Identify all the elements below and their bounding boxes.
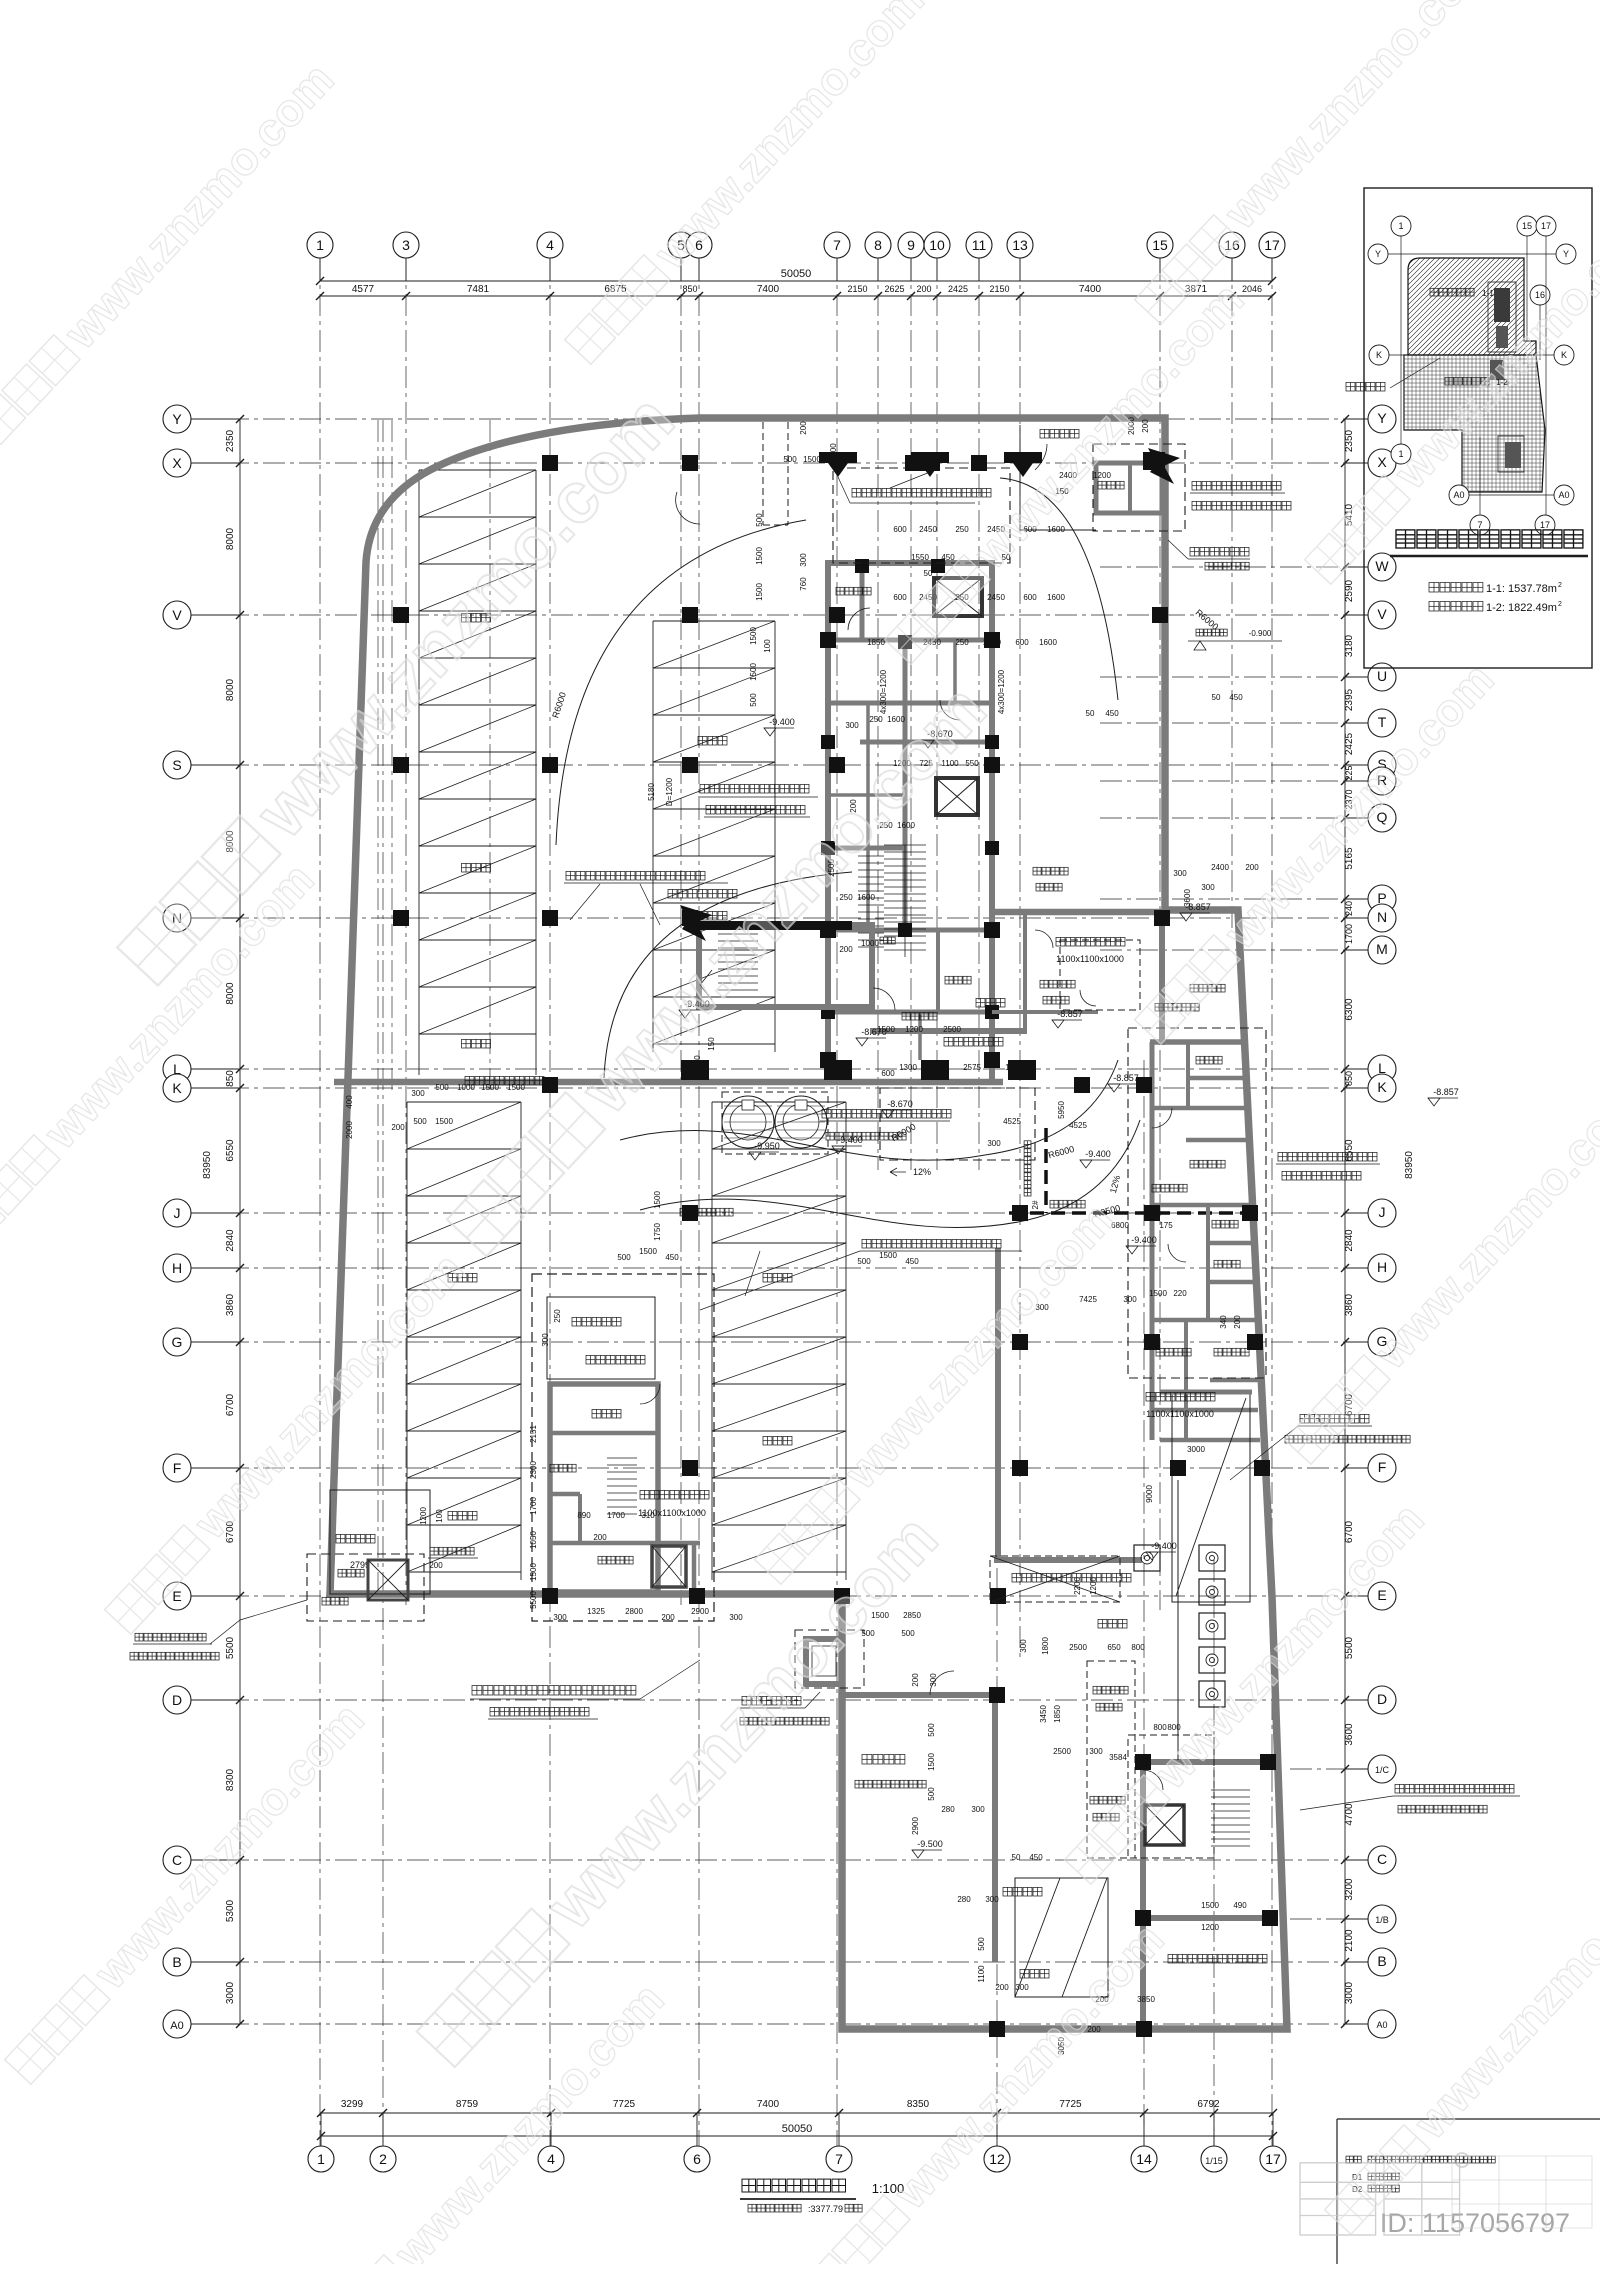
svg-text:3000: 3000 <box>1187 1445 1205 1454</box>
svg-text:5500: 5500 <box>1344 1636 1355 1659</box>
label: A unit exit 2# <box>700 784 709 793</box>
svg-text:2: 2 <box>1558 601 1562 608</box>
svg-text:2840: 2840 <box>1344 1229 1355 1252</box>
interior wall at row L (1# unit closure) <box>334 1079 1003 1086</box>
svg-text:F: F <box>173 1460 182 1476</box>
svg-text:500: 500 <box>927 1723 936 1737</box>
svg-text:450: 450 <box>1105 709 1119 718</box>
svg-text:1700: 1700 <box>529 1497 538 1515</box>
svg-text:1500: 1500 <box>755 547 764 565</box>
svg-text:J: J <box>174 1205 181 1221</box>
left dashed vent box <box>307 1554 424 1621</box>
svg-text:A0: A0 <box>170 2020 183 2032</box>
blast wall T marks at row X <box>819 452 857 463</box>
svg-text:1000: 1000 <box>457 1083 475 1092</box>
svg-text:1750: 1750 <box>653 1223 662 1241</box>
svg-text:E: E <box>1377 1587 1386 1603</box>
svg-text:8759: 8759 <box>456 2099 479 2110</box>
svg-text:300: 300 <box>1123 1295 1137 1304</box>
svg-text:ID: 1157056797: ID: 1157056797 <box>1380 2208 1570 2238</box>
svg-text:1800: 1800 <box>1041 1637 1050 1655</box>
svg-text:15: 15 <box>1152 237 1168 253</box>
svg-text:6300: 6300 <box>1344 998 1355 1021</box>
bottom dimension chain <box>321 2112 1273 2114</box>
svg-text:500: 500 <box>435 1083 449 1092</box>
svg-text:450: 450 <box>1029 1853 1043 1862</box>
grid horizontal axis lines <box>191 418 1368 420</box>
svg-text:8: 8 <box>874 237 882 253</box>
svg-text:1000: 1000 <box>861 939 879 948</box>
svg-text:6792: 6792 <box>1197 2099 1220 2110</box>
label: 150 sill <box>1205 562 1213 570</box>
svg-text:Y: Y <box>1375 249 1381 259</box>
svg-text:500: 500 <box>749 693 758 707</box>
svg-text:450: 450 <box>905 1257 919 1266</box>
svg-text:500: 500 <box>977 1937 986 1951</box>
svg-text:300: 300 <box>1089 1747 1103 1756</box>
svg-text:D=1200: D=1200 <box>665 777 674 806</box>
svg-text:4x300=1200: 4x300=1200 <box>879 669 888 714</box>
svg-text:13: 13 <box>1012 237 1028 253</box>
ramp headroom note <box>990 1556 1120 1602</box>
svg-text:1500: 1500 <box>481 1083 499 1092</box>
heavy dashed closure lines <box>1009 1211 1247 1215</box>
svg-text::3377.79: :3377.79 <box>808 2204 843 2214</box>
svg-text:100: 100 <box>435 1509 444 1523</box>
sump pit label mid-left <box>640 1490 649 1499</box>
door swing arcs <box>848 608 870 630</box>
elevator shaft 2 <box>936 778 978 815</box>
misc labels <box>836 587 871 595</box>
svg-text:6700: 6700 <box>225 1393 236 1416</box>
svg-text:1300: 1300 <box>899 1063 917 1072</box>
svg-text:2850: 2850 <box>903 1611 921 1620</box>
core bottom wall <box>870 1028 1027 1034</box>
parking stall bottom single <box>1015 1878 1108 1997</box>
svg-text:7400: 7400 <box>757 2099 780 2110</box>
svg-text:4x300=1200: 4x300=1200 <box>997 669 1006 714</box>
svg-text:5950: 5950 <box>1057 1101 1066 1119</box>
svg-text:1200: 1200 <box>905 1025 923 1034</box>
svg-text:890: 890 <box>577 1511 591 1520</box>
svg-text:Y: Y <box>1563 249 1569 259</box>
svg-text:300: 300 <box>553 1613 567 1622</box>
svg-text:15: 15 <box>1522 221 1532 231</box>
inset axis circles <box>1391 216 1411 236</box>
svg-text:1500: 1500 <box>879 1251 897 1260</box>
svg-text:7481: 7481 <box>467 284 490 295</box>
svg-text:2500: 2500 <box>943 1025 961 1034</box>
top-right air supply room <box>1096 463 1162 513</box>
svg-text:300: 300 <box>929 1673 938 1687</box>
toilet rooms right of core <box>1060 940 1140 1010</box>
inset area lines <box>1429 583 1439 593</box>
bottom mid walls <box>1140 1759 1268 1765</box>
interior wall row N right part <box>992 909 1165 916</box>
svg-text:1500: 1500 <box>749 627 758 645</box>
drawing title <box>742 2179 756 2192</box>
svg-text:1: 1 <box>316 237 324 253</box>
svg-text:1100x1100x1000: 1100x1100x1000 <box>1056 954 1124 964</box>
svg-text:1200: 1200 <box>419 1507 428 1525</box>
svg-text:240: 240 <box>1344 901 1354 916</box>
svg-text:1700: 1700 <box>607 1511 625 1520</box>
svg-text:150: 150 <box>707 1037 716 1051</box>
svg-text:2590: 2590 <box>1344 579 1355 602</box>
central core block <box>828 563 992 1082</box>
znzmo logo <box>1300 2153 1469 2235</box>
svg-text:X: X <box>172 455 182 471</box>
svg-text:1200: 1200 <box>1201 1923 1219 1932</box>
svg-text:1100x1100x1000: 1100x1100x1000 <box>1146 1409 1214 1419</box>
svg-text:300: 300 <box>845 721 859 730</box>
fire-zone inset frame <box>1364 188 1592 668</box>
svg-text:A0: A0 <box>1376 2020 1387 2030</box>
B unit normal vent left label <box>135 1633 143 1641</box>
svg-text:175: 175 <box>1159 1221 1173 1230</box>
svg-text:1500: 1500 <box>435 1117 453 1126</box>
svg-text:4525: 4525 <box>1003 1117 1021 1126</box>
svg-text:200: 200 <box>429 1561 443 1570</box>
svg-text:W: W <box>1375 558 1389 574</box>
fire shutter label <box>1346 382 1355 391</box>
label: blast wall k-row <box>862 1239 871 1248</box>
outdoor level <box>1196 629 1203 636</box>
right strip room partitions <box>1150 1039 1248 1045</box>
inset zone labels <box>1430 288 1438 296</box>
svg-text:2840: 2840 <box>225 1229 236 1252</box>
svg-text:50050: 50050 <box>781 268 812 280</box>
svg-text:17: 17 <box>1264 237 1280 253</box>
svg-text:200: 200 <box>995 1983 1009 1992</box>
svg-text:D: D <box>172 1692 182 1708</box>
vent machine room left <box>330 1490 430 1594</box>
svg-text:2046: 2046 <box>1242 284 1262 294</box>
svg-text:300: 300 <box>971 1805 985 1814</box>
svg-text:1500: 1500 <box>639 1247 657 1256</box>
svg-text:3860: 3860 <box>225 1293 236 1316</box>
axis circles left <box>163 405 191 433</box>
svg-text:3: 3 <box>402 237 410 253</box>
svg-text:8000: 8000 <box>225 527 236 550</box>
svg-text:H: H <box>172 1260 182 1276</box>
right strip dashed battle box <box>1128 1028 1266 1378</box>
svg-text:340: 340 <box>1219 1315 1228 1329</box>
elevator shaft 1 <box>934 578 982 616</box>
svg-text:3600: 3600 <box>1183 889 1192 907</box>
svg-text:14: 14 <box>1136 2151 1152 2167</box>
svg-text:T: T <box>1378 714 1387 730</box>
svg-text:1100: 1100 <box>977 1965 986 1983</box>
passage label bottom <box>1003 1887 1012 1896</box>
svg-text:1-1: 1-1 <box>1482 289 1494 298</box>
svg-text:250: 250 <box>553 1309 562 1323</box>
svg-text:7: 7 <box>835 2151 843 2167</box>
svg-text:K: K <box>1376 350 1382 360</box>
svg-text:3180: 3180 <box>1344 634 1355 657</box>
svg-text:2000: 2000 <box>345 1121 354 1139</box>
svg-text:A0: A0 <box>1453 490 1464 500</box>
big dashed B-unit box <box>532 1274 714 1621</box>
svg-text:3860: 3860 <box>1344 1293 1355 1316</box>
water tank room <box>1172 1392 1250 1602</box>
axis circles right <box>1368 405 1396 433</box>
B unit exit 1 label <box>472 1686 482 1696</box>
svg-text:-9.500: -9.500 <box>917 1839 943 1849</box>
svg-text:500: 500 <box>617 1253 631 1262</box>
svg-text:2150: 2150 <box>847 284 867 294</box>
pump room <box>1177 1480 1179 1760</box>
svg-text:2450: 2450 <box>987 593 1005 602</box>
elevation markers <box>764 728 776 736</box>
inset mini plan hatched zone 1-1 <box>1408 258 1536 355</box>
label: normal vent shaft tr <box>1190 547 1199 556</box>
svg-text:1600: 1600 <box>857 893 875 902</box>
svg-text:250: 250 <box>869 715 883 724</box>
svg-text:J: J <box>1379 1204 1386 1220</box>
right strip labels <box>1196 1056 1204 1064</box>
svg-text:300: 300 <box>1201 883 1215 892</box>
wall from fan area down to ramp <box>995 1248 1001 1560</box>
svg-text:4: 4 <box>546 237 554 253</box>
big T columns above K wall <box>681 1060 709 1080</box>
svg-text:50: 50 <box>1212 693 1221 702</box>
svg-text:50: 50 <box>1086 709 1095 718</box>
svg-text:500: 500 <box>857 1257 871 1266</box>
inset title <box>1396 530 1415 548</box>
svg-text:500: 500 <box>783 455 797 464</box>
svg-text:800: 800 <box>1131 1643 1145 1652</box>
svg-text:300: 300 <box>1019 1639 1028 1653</box>
sump pit label right strip <box>1146 1392 1155 1401</box>
svg-text:4700: 4700 <box>1344 1803 1355 1826</box>
svg-text:1: 1 <box>317 2151 325 2167</box>
B unit room labels <box>547 1297 655 1379</box>
svg-text:10: 10 <box>929 237 945 253</box>
svg-text:2350: 2350 <box>225 429 236 452</box>
axis circles bottom <box>308 2146 334 2172</box>
svg-text:1700: 1700 <box>1344 924 1354 944</box>
svg-text:1200: 1200 <box>1089 1577 1098 1595</box>
svg-text:4: 4 <box>547 2151 555 2167</box>
svg-text:7: 7 <box>833 237 841 253</box>
label: A unit vent shaft <box>1192 481 1201 490</box>
svg-text:2500: 2500 <box>1069 1643 1087 1652</box>
svg-text:-9.400: -9.400 <box>1085 1149 1111 1159</box>
svg-text:250: 250 <box>839 893 853 902</box>
svg-text:8000: 8000 <box>225 678 236 701</box>
right-top interior thin walls <box>1019 425 1021 530</box>
svg-text:B: B <box>1377 1953 1386 1969</box>
svg-text:200: 200 <box>661 1613 675 1622</box>
svg-text:-9.400: -9.400 <box>1151 1541 1177 1551</box>
transformer room walls <box>841 1692 1000 1698</box>
core stairs <box>884 844 926 846</box>
svg-text:300: 300 <box>987 1139 1001 1148</box>
svg-text:1-1: 1537.78m: 1-1: 1537.78m <box>1486 583 1557 595</box>
svg-text:5500: 5500 <box>529 1591 538 1609</box>
svg-text:1500: 1500 <box>749 663 758 681</box>
extra core columns <box>855 559 869 573</box>
twin circular shafts <box>722 1096 774 1148</box>
svg-text:200: 200 <box>839 945 853 954</box>
right strip: vertical wall under N <box>1159 912 1165 1045</box>
svg-text:1500: 1500 <box>1149 1289 1167 1298</box>
svg-text:600: 600 <box>881 1069 895 1078</box>
svg-text:1: 1 <box>1398 221 1403 231</box>
axis circles top <box>307 232 333 258</box>
svg-text:5300: 5300 <box>225 1899 236 1922</box>
svg-text:6: 6 <box>693 2151 701 2167</box>
svg-text:4577: 4577 <box>352 284 375 295</box>
svg-text:200: 200 <box>799 421 808 435</box>
svg-text:83950: 83950 <box>202 1151 213 1179</box>
svg-text:17: 17 <box>1265 2151 1281 2167</box>
svg-text:280: 280 <box>957 1895 971 1904</box>
svg-text:G: G <box>172 1334 183 1350</box>
walls right of core rows N-L <box>1023 912 1027 1030</box>
parking strip 407,1102 <box>406 1102 408 1580</box>
svg-text:1500: 1500 <box>877 1025 895 1034</box>
svg-text:300: 300 <box>985 1895 999 1904</box>
svg-text:1550: 1550 <box>911 553 929 562</box>
svg-text:300: 300 <box>411 1089 425 1098</box>
svg-text:2500: 2500 <box>1053 1747 1071 1756</box>
dashed box around fans <box>722 1092 828 1154</box>
svg-text:850: 850 <box>225 1070 236 1087</box>
svg-text:2200: 2200 <box>1073 1577 1082 1595</box>
svg-text:2300: 2300 <box>529 1461 538 1479</box>
svg-text:450: 450 <box>941 553 955 562</box>
outer basement wall <box>330 418 1287 2029</box>
dashed box A-unit exit at core bottom <box>880 1088 1035 1160</box>
svg-text:200: 200 <box>391 1123 405 1132</box>
svg-text:V: V <box>172 607 182 623</box>
top dimension chain <box>320 280 1272 282</box>
grid vertical axis lines <box>319 258 321 2146</box>
svg-text:2350: 2350 <box>1344 429 1355 452</box>
svg-text:600: 600 <box>893 525 907 534</box>
svg-text:7725: 7725 <box>613 2099 636 2110</box>
A/B unit main exit right <box>1278 1152 1287 1161</box>
svg-text:9: 9 <box>907 237 915 253</box>
svg-text:Y: Y <box>1377 410 1387 426</box>
svg-text:-9.950: -9.950 <box>754 1141 780 1151</box>
svg-text:500: 500 <box>901 1629 915 1638</box>
svg-text:1500: 1500 <box>1201 1901 1219 1910</box>
svg-text:2#: 2# <box>1031 1200 1040 1209</box>
svg-text:D: D <box>1377 1691 1387 1707</box>
svg-text:550: 550 <box>965 759 979 768</box>
svg-text:H: H <box>1377 1259 1387 1275</box>
svg-text:100: 100 <box>763 639 772 653</box>
svg-text:K: K <box>1377 1079 1387 1095</box>
svg-text:2425: 2425 <box>1344 732 1355 755</box>
svg-text:50: 50 <box>924 569 933 578</box>
svg-text:250: 250 <box>955 525 969 534</box>
parking strip 712,1102 <box>711 1102 713 1580</box>
svg-text:1-2: 1822.49m: 1-2: 1822.49m <box>1486 602 1557 614</box>
svg-text:200: 200 <box>1233 1315 1242 1329</box>
left dimension chain <box>239 419 241 2024</box>
svg-text:1600: 1600 <box>1039 638 1057 647</box>
svg-text:K: K <box>172 1080 182 1096</box>
svg-text:3850: 3850 <box>1137 1995 1155 2004</box>
svg-text:-9.400: -9.400 <box>837 1135 863 1145</box>
svg-text:3299: 3299 <box>341 2099 364 2110</box>
svg-text:6550: 6550 <box>1344 1139 1355 1162</box>
svg-text:1850: 1850 <box>867 638 885 647</box>
svg-text:760: 760 <box>799 577 808 591</box>
blast wall dashed lines near col 7 <box>762 422 764 525</box>
svg-text:7400: 7400 <box>757 284 780 295</box>
svg-text:A0: A0 <box>1558 490 1569 500</box>
svg-text:200: 200 <box>911 1673 920 1687</box>
svg-text:310: 310 <box>641 1511 655 1520</box>
svg-text:50: 50 <box>1012 1853 1021 1862</box>
svg-text:2575: 2575 <box>963 1063 981 1072</box>
svg-text:N: N <box>1377 909 1387 925</box>
svg-text:1500: 1500 <box>529 1563 538 1581</box>
svg-text:2400: 2400 <box>1211 863 1229 872</box>
arrow mark top right <box>1148 448 1180 484</box>
svg-text:2: 2 <box>1558 582 1562 589</box>
svg-text:1600: 1600 <box>1047 593 1065 602</box>
svg-text:7: 7 <box>1477 520 1482 530</box>
storage label <box>1168 1954 1177 1963</box>
svg-text:2900: 2900 <box>691 1607 709 1616</box>
parking strip 653,621 <box>652 621 654 1052</box>
svg-text:850: 850 <box>1344 1071 1354 1086</box>
svg-text:C: C <box>1377 1851 1387 1867</box>
svg-text:12: 12 <box>989 2151 1005 2167</box>
ramp arc right-top <box>1000 478 1118 700</box>
B unit rooms mid-bottom <box>550 1384 658 1592</box>
svg-text:4525: 4525 <box>1069 1121 1087 1130</box>
svg-text:-8.670: -8.670 <box>887 1099 913 1109</box>
label: blast wall mid <box>566 871 575 880</box>
svg-text:1325: 1325 <box>587 1607 605 1616</box>
bottom toilets dashed <box>1087 1661 1135 1858</box>
svg-text:800: 800 <box>1153 1723 1167 1732</box>
core bottom dashed passage <box>833 468 1010 563</box>
svg-text:1500: 1500 <box>653 1191 662 1209</box>
svg-text:E: E <box>172 1588 181 1604</box>
svg-text:1/15: 1/15 <box>1205 2156 1223 2166</box>
svg-text:1500: 1500 <box>803 455 821 464</box>
svg-text:B: B <box>172 1954 181 1970</box>
svg-text:83950: 83950 <box>1404 1151 1415 1179</box>
svg-text:200: 200 <box>916 284 931 294</box>
structural columns <box>542 455 558 471</box>
ramp curves row K <box>620 1131 985 1161</box>
svg-text:450: 450 <box>1229 693 1243 702</box>
svg-text:K: K <box>1561 350 1567 360</box>
svg-text:600: 600 <box>1015 638 1029 647</box>
svg-text:400: 400 <box>345 1095 354 1109</box>
svg-text:6550: 6550 <box>225 1139 236 1162</box>
svg-text:1500: 1500 <box>927 1753 936 1771</box>
ramp arc 2 <box>604 872 852 1078</box>
svg-text:500: 500 <box>927 1787 936 1801</box>
svg-text:-9.400: -9.400 <box>769 717 795 727</box>
svg-text:300: 300 <box>799 553 808 567</box>
svg-text:1050: 1050 <box>529 1531 538 1549</box>
water tank labels right <box>1300 1414 1309 1423</box>
svg-text:F: F <box>1378 1459 1387 1475</box>
svg-text:2100: 2100 <box>1344 1929 1355 1952</box>
svg-text:U: U <box>1377 668 1387 684</box>
